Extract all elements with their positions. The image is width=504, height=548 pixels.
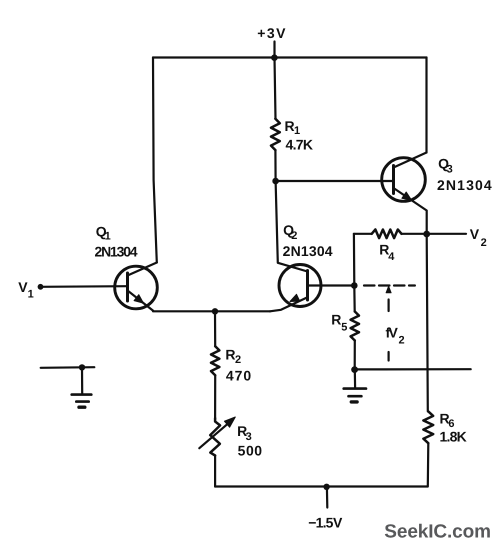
ground (below R5): [344, 370, 366, 402]
svg-text:SeekIC.com: SeekIC.com: [384, 521, 491, 542]
svg-text:1.8K: 1.8K: [440, 429, 467, 445]
node R1 bottom junction: [272, 178, 279, 185]
wire R4 left lead down to Q2 base node: [353, 234, 356, 286]
-1.5V stub wire: [326, 487, 329, 508]
wire left vertical (Q1 collector to rail): [153, 58, 157, 263]
svg-text:2N1304: 2N1304: [95, 243, 138, 259]
svg-text:2: 2: [481, 237, 487, 249]
dashed fV2 arrowhead: [386, 286, 391, 293]
svg-text:3: 3: [246, 431, 252, 443]
transistor Q1: [115, 263, 158, 311]
svg-text:1: 1: [105, 230, 111, 242]
wire Q2 collector (node down to Q2): [276, 181, 308, 272]
svg-text:1: 1: [294, 125, 300, 137]
svg-text:470: 470: [226, 368, 252, 384]
wire right vertical (rail to Q3 collector): [425, 58, 427, 153]
node Q3 emitter junction: [423, 231, 430, 238]
wire Q2 base to node: [308, 284, 355, 286]
transistor Q2: [270, 265, 321, 312]
wire base rail (node to Q3 base): [276, 180, 394, 182]
svg-text:500: 500: [238, 442, 263, 458]
wire top rail (+3V bus): [153, 56, 427, 58]
svg-text:2: 2: [291, 230, 297, 242]
svg-text:1: 1: [28, 289, 34, 301]
svg-text:R: R: [225, 346, 235, 362]
node +3V junction: [271, 54, 278, 61]
svg-text:2: 2: [399, 334, 405, 346]
node -1.5V junction: [323, 484, 329, 490]
dashed fV2 pointer (vertical): [388, 300, 390, 361]
dashed fV2 pointer (horizontal): [364, 284, 415, 286]
svg-text:4: 4: [388, 251, 395, 263]
wire bottom rail (-1.5V bus): [215, 485, 427, 487]
node emitter junction: [212, 308, 218, 314]
svg-text:2N1304: 2N1304: [437, 177, 492, 193]
+3V stub wire: [273, 42, 275, 58]
node ground junction: [351, 366, 358, 373]
resistor R3 (variable, arrow): [210, 418, 220, 455]
transistor Q3: [382, 153, 427, 235]
svg-text:3: 3: [447, 164, 453, 176]
svg-text:R: R: [331, 312, 341, 328]
resistor R6: [427, 234, 428, 411]
svg-text:4.7K: 4.7K: [286, 136, 314, 152]
svg-text:V: V: [470, 226, 480, 242]
svg-text:+3V: +3V: [257, 25, 286, 41]
ground (left, floating reference): [41, 364, 95, 407]
svg-text:2: 2: [235, 354, 241, 366]
svg-text:5: 5: [341, 322, 347, 334]
resistor R5: [353, 286, 356, 312]
resistor R1: [275, 58, 276, 119]
wire V1 to Q1 base: [41, 285, 128, 288]
wire V2 output: [427, 233, 466, 235]
node V1 terminal dot: [38, 284, 44, 290]
svg-text:2N1304: 2N1304: [283, 243, 333, 259]
resistor R2: [214, 311, 216, 346]
resistor R4: [354, 233, 372, 235]
svg-text:−1.5 V: −1.5 V: [308, 514, 343, 530]
svg-text:fV: fV: [386, 325, 399, 341]
wire emitter rail (Q1/Q2 emitters to R2): [153, 310, 270, 312]
node Q2 base junction: [351, 282, 358, 289]
wire ground rail (to right): [355, 368, 471, 370]
